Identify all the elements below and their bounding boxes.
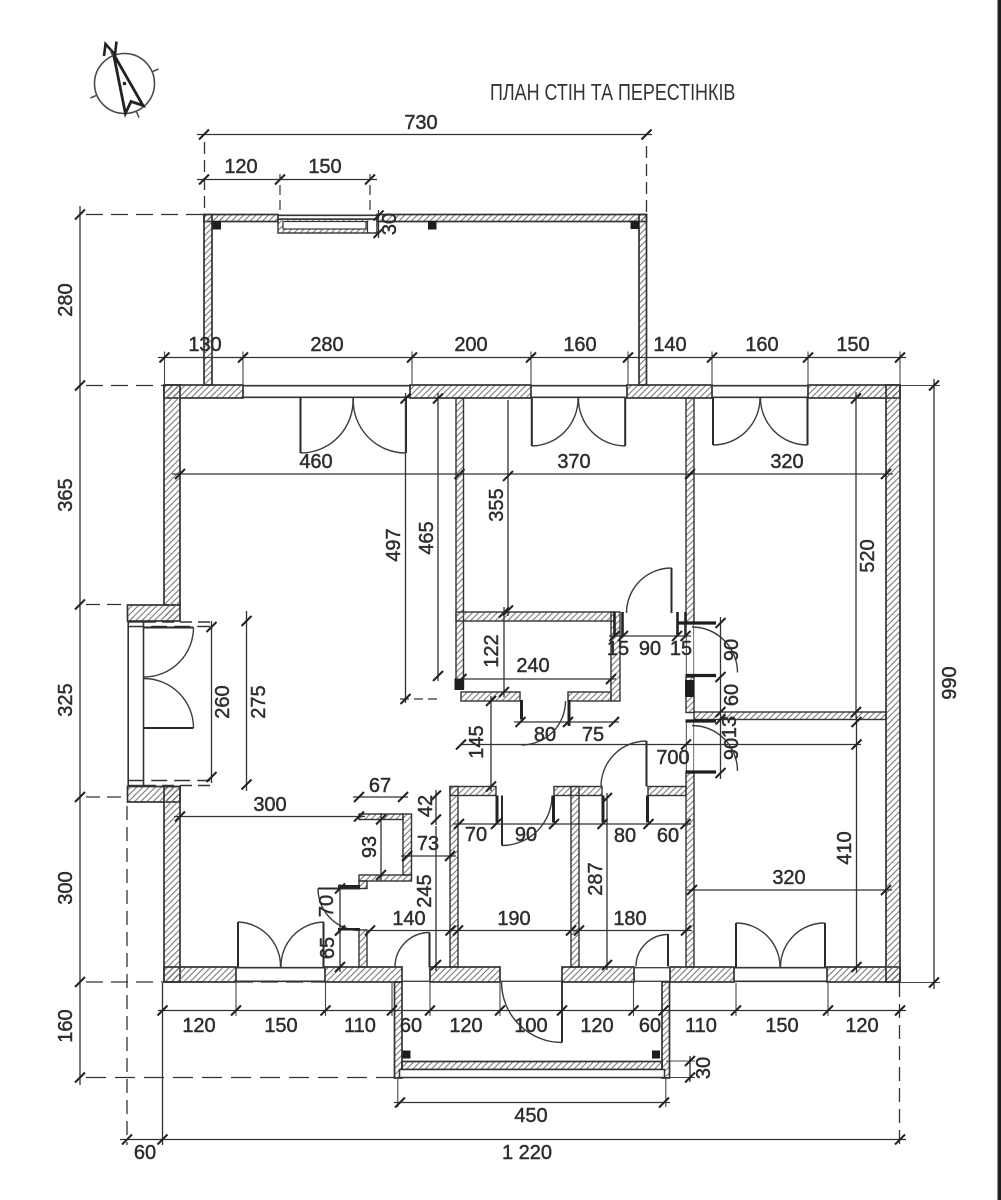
svg-text:42: 42 xyxy=(415,795,437,817)
svg-text:280: 280 xyxy=(310,334,343,356)
dim 497 living room xyxy=(405,393,407,703)
extension dash left y385 xyxy=(86,385,163,387)
dim 70 hall door xyxy=(339,884,341,934)
extension dash left y982 xyxy=(86,981,326,983)
central vertical wall upper xyxy=(686,398,694,623)
rear door threshold lines xyxy=(634,967,670,969)
terrace window sill outer rect xyxy=(278,219,377,233)
dim 287 toilet xyxy=(606,793,608,970)
junction block central xyxy=(685,680,694,697)
window band bottom-left room xyxy=(236,967,325,969)
svg-text:150: 150 xyxy=(308,156,341,178)
extension dash bottom right x899 xyxy=(899,983,901,1145)
svg-text:160: 160 xyxy=(55,1009,77,1042)
svg-text:320: 320 xyxy=(770,451,803,473)
svg-text:180: 180 xyxy=(613,908,646,930)
closet top wall xyxy=(456,612,614,621)
svg-text:450: 450 xyxy=(514,1105,547,1127)
svg-text:ПЛАН СТІН ТА ПЕРЕСТІНКІВ: ПЛАН СТІН ТА ПЕРЕСТІНКІВ xyxy=(490,80,735,106)
dim 93 step xyxy=(380,813,382,881)
compass letter N xyxy=(104,42,117,57)
svg-text:300: 300 xyxy=(253,794,286,816)
extension right wall to 990 chain bottom xyxy=(901,982,940,984)
dim 240 closet xyxy=(456,678,616,680)
svg-text:90: 90 xyxy=(515,824,537,846)
bay window wall lines xyxy=(127,621,129,787)
closet right wall xyxy=(611,612,620,701)
compass rim ticks xyxy=(152,69,159,72)
terrace window inner white rect xyxy=(283,222,366,230)
central vertical wall pier 60 xyxy=(686,677,694,713)
svg-text:130: 130 xyxy=(188,334,221,356)
svg-text:120: 120 xyxy=(182,1015,215,1037)
dim 730 terrace xyxy=(197,134,652,136)
svg-text:990: 990 xyxy=(939,666,961,699)
bay double door upper xyxy=(144,627,194,629)
svg-text:13: 13 xyxy=(719,716,741,738)
extension dash top-left y215 xyxy=(86,214,203,216)
bay double door lower xyxy=(144,727,194,729)
dim 275 bay xyxy=(246,611,248,791)
north compass dart arrow xyxy=(114,54,144,113)
dim 70/90/80/60 doors xyxy=(453,823,691,825)
double door top-left room xyxy=(300,398,302,453)
svg-text:260: 260 xyxy=(212,685,234,718)
dim 30 terrace window xyxy=(378,210,380,238)
dim 60 + 1220 total xyxy=(120,1139,906,1141)
hall step wall horizontal 2 xyxy=(359,875,412,881)
dim 65 hall wall xyxy=(339,925,341,972)
building top wall segment 2 xyxy=(410,385,531,398)
extension bottom chain short lines xyxy=(235,983,237,1016)
porch left wall xyxy=(395,982,403,1078)
svg-text:275: 275 xyxy=(248,685,270,718)
door jamb marks room 370 xyxy=(613,612,616,636)
building left wall lower xyxy=(164,787,180,983)
terrace window right pocket xyxy=(368,221,377,233)
svg-text:320: 320 xyxy=(772,867,805,889)
closet bottom wall segment left xyxy=(461,692,520,701)
junction block left xyxy=(455,679,465,691)
porch step hatched band xyxy=(402,1062,662,1070)
hall west wall lower segment xyxy=(359,930,367,967)
central vertical wall segment lower xyxy=(686,773,694,967)
terrace column left xyxy=(213,221,222,230)
svg-text:70: 70 xyxy=(465,824,487,846)
svg-text:122: 122 xyxy=(481,634,503,667)
dim 42 step xyxy=(435,790,437,825)
corridor south wall segment 3 xyxy=(648,787,686,796)
extension dash left y604 xyxy=(86,604,127,606)
extension dash left y1077 long xyxy=(86,1077,399,1079)
dim 520 right room xyxy=(855,392,857,718)
title text xyxy=(490,80,735,106)
svg-text:70: 70 xyxy=(316,895,338,917)
porch right wall xyxy=(662,982,670,1078)
extension 520 top xyxy=(862,398,886,400)
building top wall segment 3 xyxy=(627,385,712,398)
entrance door xyxy=(561,982,563,1043)
extension dash corridor y699 xyxy=(400,698,442,700)
closet door jamb marks xyxy=(520,700,523,720)
extension dash window x280 xyxy=(279,174,281,210)
north compass circle xyxy=(95,54,155,114)
terrace top wall right segment xyxy=(377,215,647,222)
hall step wall horizontal 1 xyxy=(359,814,403,820)
porch column left xyxy=(403,1051,411,1059)
building bottom wall segment 2 xyxy=(325,967,402,982)
svg-text:90: 90 xyxy=(721,738,743,760)
svg-text:325: 325 xyxy=(55,683,77,716)
corridor door jamb marks xyxy=(496,796,499,823)
building bottom wall segment 4a xyxy=(562,967,634,982)
svg-text:287: 287 xyxy=(585,862,607,895)
svg-text:497: 497 xyxy=(383,528,405,561)
window band top-left room xyxy=(243,385,410,387)
dim chain bottom 120..120 xyxy=(158,1010,906,1012)
svg-text:120: 120 xyxy=(449,1015,482,1037)
separator wall right rooms horizontal xyxy=(694,712,886,720)
dim 67 step wall xyxy=(353,796,408,798)
dim 300 lower-left room xyxy=(174,816,365,818)
building left wall upper xyxy=(164,385,180,605)
wall edge lines across central door gaps xyxy=(685,623,687,677)
threshold line hall porch door xyxy=(402,980,430,982)
dim 120/150 terrace window xyxy=(197,179,377,181)
hall to living room door xyxy=(318,888,360,890)
toilet door xyxy=(646,741,648,787)
svg-text:145: 145 xyxy=(466,725,488,758)
svg-text:67: 67 xyxy=(369,775,391,797)
vestibule inner door xyxy=(501,796,503,846)
dim 140/190 hall vestibule xyxy=(368,930,577,932)
corridor south wall segment 1 xyxy=(450,787,496,796)
svg-text:30: 30 xyxy=(693,1057,715,1079)
svg-text:60: 60 xyxy=(657,825,679,847)
svg-text:355: 355 xyxy=(486,488,508,521)
dim chain top 130..150 xyxy=(158,357,906,359)
extension dash terrace left x204 xyxy=(204,141,206,208)
extension dash window x370 xyxy=(369,174,371,210)
bay sill lines top xyxy=(128,621,143,623)
svg-text:160: 160 xyxy=(563,334,596,356)
toilet left wall xyxy=(571,787,579,968)
dim 410 right room xyxy=(856,716,858,973)
closet bottom wall segment right xyxy=(568,692,611,701)
svg-text:100: 100 xyxy=(514,1015,547,1037)
dim 180 toilet width xyxy=(573,930,692,932)
svg-text:730: 730 xyxy=(404,112,437,134)
bay bottom wall xyxy=(128,787,181,803)
dim 700 corridor xyxy=(461,744,861,746)
door to bottom-right room xyxy=(686,719,717,722)
extension right wall to 990 chain top xyxy=(901,385,940,387)
svg-text:245: 245 xyxy=(414,874,436,907)
threshold line entrance door xyxy=(500,980,562,982)
terrace left wall xyxy=(204,215,212,386)
building top wall segment 1 xyxy=(164,385,243,398)
svg-text:60: 60 xyxy=(134,1142,156,1164)
dim 245 hall xyxy=(435,826,437,971)
extension porch step to 30 dim xyxy=(666,1060,695,1062)
double door bottom-left room xyxy=(237,922,239,967)
dim 260 bay xyxy=(211,621,213,783)
double door bottom-right room xyxy=(735,923,737,967)
svg-text:120: 120 xyxy=(580,1015,613,1037)
door corridor to room 320 xyxy=(678,621,716,624)
building right wall xyxy=(886,385,900,982)
svg-text:1 220: 1 220 xyxy=(502,1142,552,1164)
svg-text:90: 90 xyxy=(639,638,661,660)
svg-text:30: 30 xyxy=(379,213,401,235)
svg-text:75: 75 xyxy=(582,724,604,746)
svg-text:190: 190 xyxy=(497,908,530,930)
svg-text:140: 140 xyxy=(653,334,686,356)
double door room 370 xyxy=(531,398,533,446)
extension porch to 450 dim right xyxy=(665,1078,667,1107)
terrace top wall left segment xyxy=(204,215,278,222)
hall porch door xyxy=(429,933,431,968)
building bottom wall segment 4b xyxy=(670,967,734,982)
terrace right wall xyxy=(639,215,647,386)
porch step lower band xyxy=(400,1070,665,1078)
building top wall segment 4 xyxy=(808,385,900,398)
compass center dot xyxy=(123,82,127,86)
svg-text:15: 15 xyxy=(670,638,692,660)
svg-text:520: 520 xyxy=(857,539,879,572)
svg-text:60: 60 xyxy=(721,684,743,706)
dim 990 right xyxy=(933,379,935,989)
dim 460/370/320 rooms xyxy=(172,473,893,475)
svg-text:110: 110 xyxy=(685,1015,717,1037)
svg-text:65: 65 xyxy=(317,937,339,959)
porch column right xyxy=(652,1051,660,1059)
extension dash bay outer x127 xyxy=(126,806,128,1145)
window band room 320 xyxy=(712,385,808,387)
corner hatch patches to hide seams xyxy=(165,386,179,397)
hall step wall vertical 1 xyxy=(403,814,412,875)
door corridor to room 370 xyxy=(671,568,673,613)
svg-text:200: 200 xyxy=(454,334,487,356)
svg-text:15: 15 xyxy=(607,638,629,660)
dim 450 porch xyxy=(394,1102,670,1104)
svg-text:80: 80 xyxy=(614,825,636,847)
dim 73 step xyxy=(401,855,456,857)
dim 355 room 370 xyxy=(507,400,509,616)
dim 145 corridor width xyxy=(490,696,492,791)
window band room 370 xyxy=(531,385,627,387)
dim 80/75 closet door xyxy=(514,721,619,723)
vestibule left wall xyxy=(450,787,458,968)
svg-text:465: 465 xyxy=(416,521,438,554)
extension porch to 450 dim left xyxy=(397,1078,399,1107)
window band bottom-right room xyxy=(734,967,827,969)
dim 122 closet xyxy=(503,607,505,697)
terrace column middle xyxy=(428,221,437,230)
svg-text:160: 160 xyxy=(745,334,778,356)
hall west wall upper stub xyxy=(359,881,367,889)
svg-text:300: 300 xyxy=(55,871,77,904)
svg-text:90: 90 xyxy=(721,639,743,661)
bay top wall xyxy=(128,605,181,621)
toilet rear door xyxy=(667,934,669,967)
bay sill lines bottom xyxy=(128,780,210,782)
svg-text:140: 140 xyxy=(392,908,425,930)
svg-text:110: 110 xyxy=(344,1015,376,1037)
closet door xyxy=(522,701,566,745)
svg-text:80: 80 xyxy=(534,724,556,746)
svg-text:60: 60 xyxy=(400,1015,422,1037)
svg-text:280: 280 xyxy=(55,283,77,316)
terrace column right xyxy=(631,221,640,230)
hall door jamb marks xyxy=(338,885,360,888)
building bottom wall segment 5 xyxy=(827,967,900,982)
svg-text:120: 120 xyxy=(224,156,257,178)
svg-text:93: 93 xyxy=(359,836,381,858)
svg-text:150: 150 xyxy=(765,1015,798,1037)
extension dash terrace right x646 xyxy=(646,141,648,212)
terrace top wall opening edge lines xyxy=(278,214,377,216)
svg-text:150: 150 xyxy=(836,334,869,356)
svg-text:460: 460 xyxy=(299,451,332,473)
building bottom wall segment 1 xyxy=(164,967,236,982)
svg-text:120: 120 xyxy=(845,1015,878,1037)
extension bottom left corner solid x162 xyxy=(162,983,164,1145)
extension lines top chain xyxy=(164,352,166,385)
dim 90/60/13/90 central wall xyxy=(720,617,722,779)
corridor south wall segment 2 xyxy=(554,787,602,796)
building bottom wall segment 3 xyxy=(430,967,500,982)
svg-text:700: 700 xyxy=(656,747,689,769)
dim 15/90/15 door 370 xyxy=(609,635,691,637)
svg-text:410: 410 xyxy=(834,831,856,864)
dim 320 bottom-right room xyxy=(687,889,892,891)
svg-text:240: 240 xyxy=(516,655,549,677)
extension dash left y797 xyxy=(86,796,127,798)
dim 30 porch step xyxy=(689,1056,691,1082)
scan border right edge xyxy=(998,0,1001,1200)
svg-text:370: 370 xyxy=(557,451,590,473)
double door room 320 xyxy=(712,398,714,445)
dim 465 living room xyxy=(437,393,439,681)
svg-text:150: 150 xyxy=(264,1015,297,1037)
svg-text:60: 60 xyxy=(639,1015,661,1037)
interior wall living/370 vertical xyxy=(456,398,464,688)
dim chain left 280/365/325/300/160 xyxy=(79,206,81,1085)
svg-text:365: 365 xyxy=(55,478,77,511)
